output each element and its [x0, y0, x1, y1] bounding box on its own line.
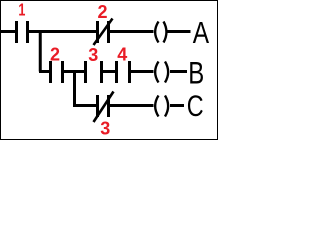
svg-text:2: 2 [97, 2, 107, 22]
svg-text:4: 4 [117, 45, 127, 65]
svg-text:3: 3 [100, 119, 110, 139]
svg-text:3: 3 [88, 45, 98, 65]
svg-text:A: A [193, 15, 210, 49]
svg-text:B: B [188, 56, 204, 91]
svg-text:2: 2 [50, 45, 60, 65]
svg-text:1: 1 [18, 1, 25, 21]
svg-text:C: C [187, 89, 204, 122]
